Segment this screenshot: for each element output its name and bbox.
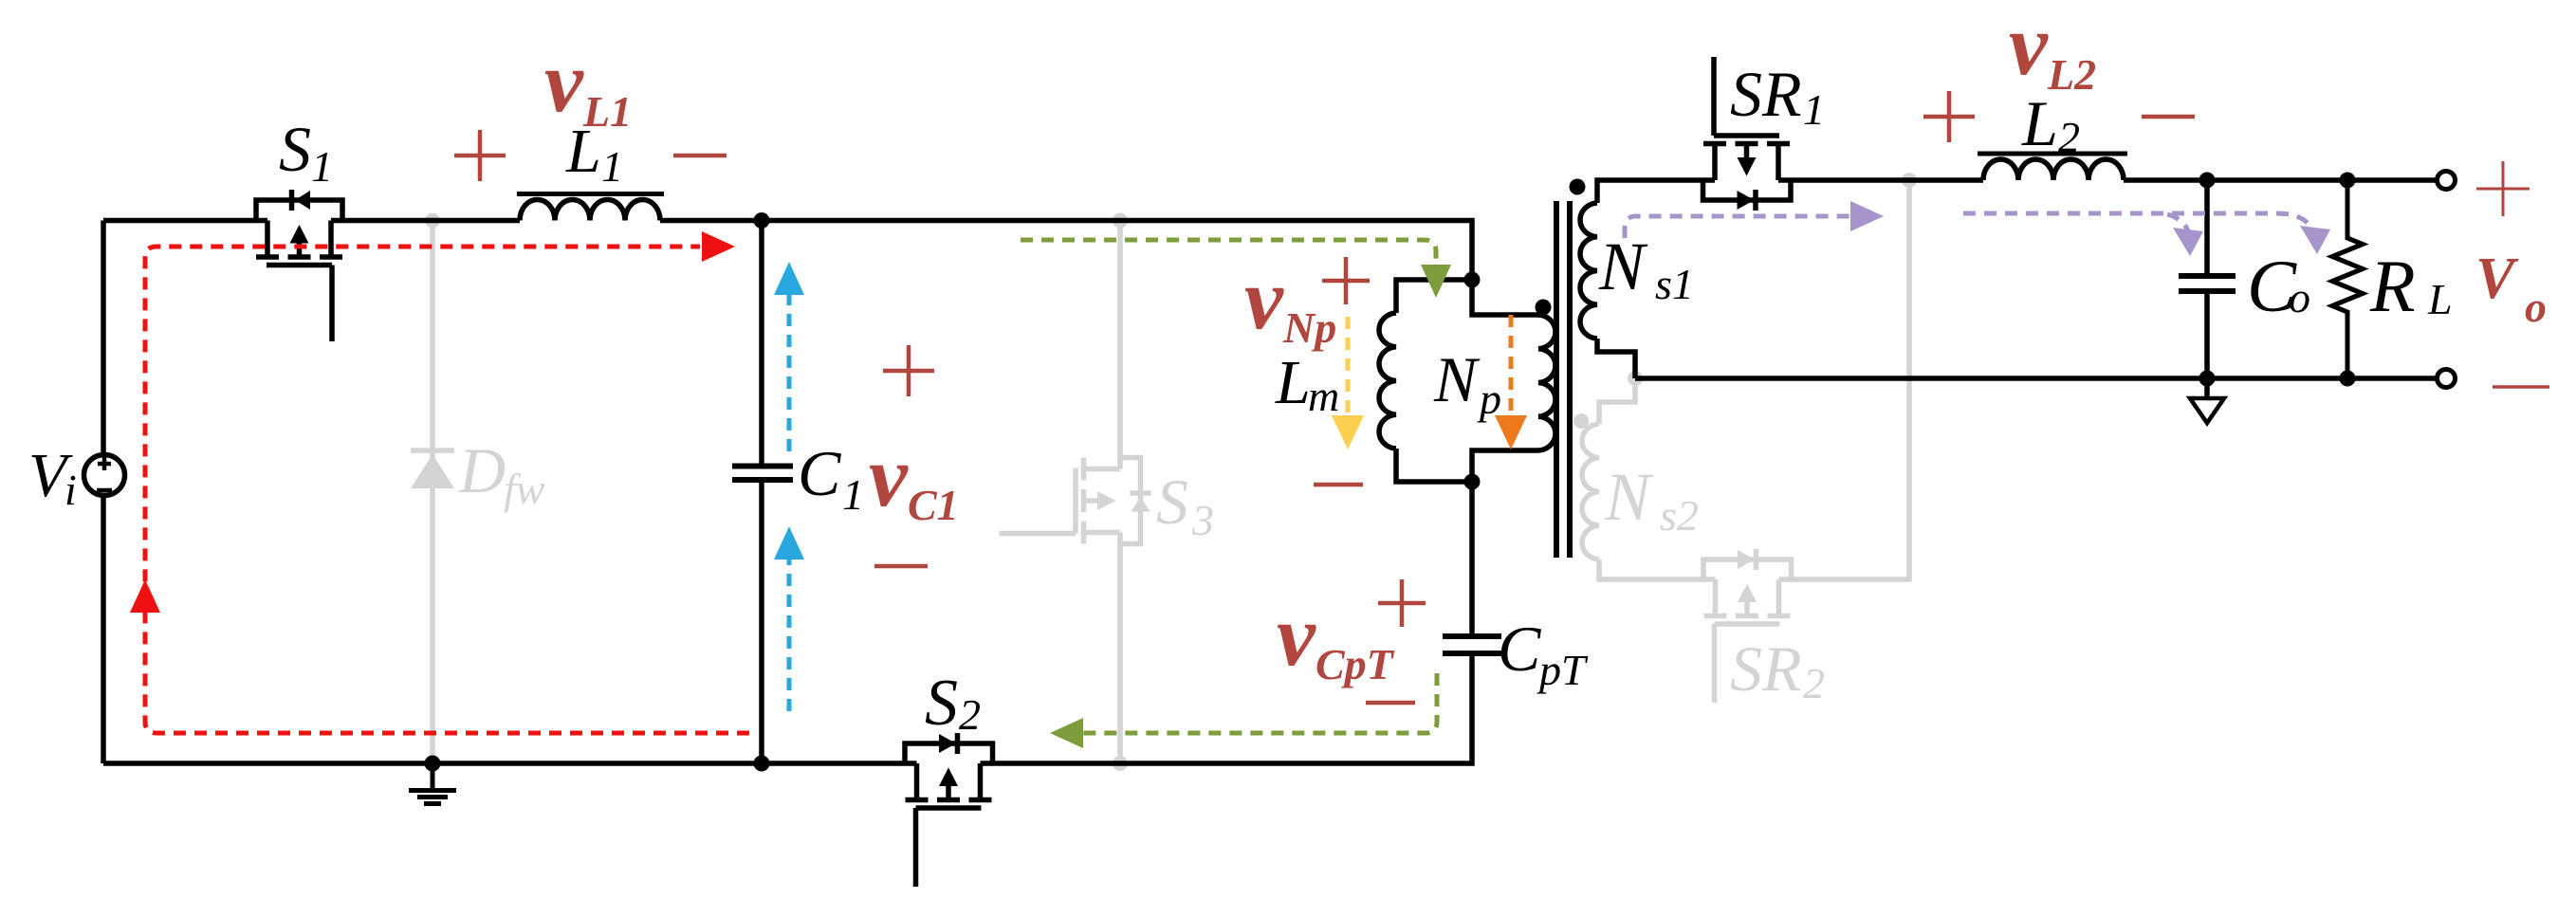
current loop red dashed — [130, 231, 749, 733]
capacitor CpT — [1443, 636, 1501, 653]
source Vi — [84, 455, 125, 496]
inductor L1 — [520, 200, 660, 221]
svg-text:m: m — [1308, 372, 1339, 420]
svg-text:L1: L1 — [582, 87, 632, 136]
svg-text:1: 1 — [842, 470, 864, 519]
svg-text:s1: s1 — [1655, 260, 1694, 308]
node Np bottom — [1464, 474, 1481, 490]
polarity dot Np — [1536, 300, 1552, 316]
svg-text:s2: s2 — [1660, 491, 1699, 540]
svg-text:v: v — [544, 33, 584, 130]
transistor SR2 — [1703, 549, 1792, 703]
svg-text:C: C — [1498, 613, 1541, 685]
wire bottom right of S2 — [981, 656, 1473, 763]
svg-text:C: C — [798, 437, 841, 509]
svg-text:R: R — [2369, 245, 2416, 327]
svg-text:o: o — [2525, 283, 2547, 331]
polarity plus vL1 — [454, 91, 2195, 703]
node ground — [425, 756, 441, 772]
wire L2 to output terminal — [2124, 177, 2436, 183]
svg-text:L2: L2 — [2047, 50, 2096, 99]
transformer core — [1556, 201, 1570, 558]
polarity dot Ns2 — [1573, 413, 1589, 429]
svg-text:v: v — [1244, 250, 1284, 347]
svg-text:2: 2 — [2058, 113, 2080, 161]
current path purple dashed secondary — [1625, 201, 2330, 256]
svg-text:CpT: CpT — [1316, 640, 1395, 688]
node C1 bottom — [754, 756, 770, 772]
node Co bottom — [2199, 371, 2216, 387]
svg-text:Np: Np — [1282, 303, 1336, 352]
polarity minus vCpT — [1366, 701, 1415, 706]
resistor RL — [2332, 180, 2363, 378]
polarity minus vC1 — [874, 564, 928, 569]
wire Lm bottom lead — [1396, 449, 1472, 482]
svg-text:N: N — [1598, 229, 1648, 304]
transistor S1 — [256, 190, 342, 341]
polarity plus vCpT — [1378, 579, 1426, 627]
wire Dfw branch — [430, 221, 435, 764]
wire Ns1 bottom lead — [1597, 339, 1635, 378]
svg-text:v: v — [869, 428, 909, 524]
winding Np — [1538, 315, 1555, 450]
winding Ns1 — [1580, 203, 1597, 339]
svg-text:C1: C1 — [908, 481, 959, 529]
svg-text:N: N — [1433, 343, 1481, 415]
capacitor C1 branch — [759, 221, 764, 764]
current arrows blue dashed C1 — [774, 262, 804, 711]
current loop green dashed — [1021, 240, 1451, 748]
svg-text:v: v — [1277, 587, 1316, 684]
svg-text:1: 1 — [311, 142, 333, 191]
wire Np bottom lead — [1472, 450, 1538, 482]
polarity dot Ns1 — [1570, 179, 1586, 195]
polarity minus vL1 — [673, 154, 727, 158]
winding Ns2 — [1582, 424, 1599, 559]
wire SR2 to top wire — [1779, 180, 1910, 579]
wire S3 branch — [1117, 221, 1123, 764]
polarity plus vL2 — [1923, 91, 1975, 142]
wire Lm branch — [1396, 280, 1472, 313]
transistor SR1 — [1703, 57, 1792, 211]
svg-text:V: V — [2475, 247, 2519, 311]
svg-text:S: S — [1156, 466, 1188, 538]
node RL bottom — [2340, 371, 2356, 387]
wire top left — [103, 218, 267, 224]
wire output bottom — [1635, 376, 2436, 381]
svg-text:L: L — [1275, 348, 1311, 417]
node gray SR2 branch on output top wire — [1902, 173, 1917, 188]
svg-text:S: S — [279, 113, 311, 185]
wire bottom left — [103, 761, 917, 766]
transistor S3 — [1000, 458, 1151, 544]
terminal output minus — [2438, 370, 2456, 388]
node C1 top — [754, 212, 770, 229]
node Co top — [2199, 173, 2216, 189]
diode Dfw — [411, 450, 454, 488]
svg-text:SR: SR — [1730, 58, 1802, 130]
wire Ns2 top lead — [1599, 378, 1635, 424]
terminal output plus — [2438, 172, 2456, 190]
ground main — [409, 763, 456, 804]
svg-text:D: D — [458, 434, 506, 506]
svg-text:1: 1 — [1803, 85, 1825, 134]
polarity plus Vo — [2476, 161, 2530, 216]
wire top from L1 to transformer — [660, 221, 1538, 316]
transistor S2 — [905, 733, 993, 887]
node gray top of Dfw branch — [425, 213, 440, 229]
polarity minus vL2 — [2142, 115, 2195, 119]
svg-text:o: o — [2289, 273, 2310, 321]
svg-text:p: p — [1477, 375, 1501, 423]
current arrow yellow dashed Lm — [1332, 317, 1364, 449]
node gray bottom of S3 branch — [1113, 756, 1128, 771]
node RL top — [2340, 173, 2356, 189]
svg-text:S: S — [925, 667, 958, 740]
svg-text:1: 1 — [601, 142, 623, 191]
svg-text:2: 2 — [1803, 659, 1825, 707]
svg-text:N: N — [1604, 459, 1654, 535]
capacitor Co branch — [2204, 180, 2210, 378]
wire left vertical — [101, 221, 106, 764]
svg-text:3: 3 — [1191, 496, 1214, 544]
node gray top of S3 branch — [1113, 213, 1128, 229]
svg-text:v: v — [2009, 0, 2049, 93]
polarity plus vNp — [1322, 257, 1370, 304]
node gray Ns2 tap — [1628, 371, 1643, 386]
wire Ns1 top lead — [1597, 180, 1715, 203]
svg-text:2: 2 — [959, 690, 981, 739]
wire SR1 to L2 — [1778, 177, 1983, 183]
node Np top — [1464, 272, 1481, 288]
wire top from S1 to L1 — [331, 218, 520, 224]
ground output — [2204, 378, 2210, 398]
current arrow orange dashed Np — [1495, 315, 1527, 449]
polarity minus vNp — [1314, 483, 1363, 487]
svg-text:fw: fw — [504, 465, 545, 513]
inductor L2 — [1983, 159, 2124, 180]
svg-text:L: L — [2427, 275, 2453, 323]
polarity plus vC1 — [883, 345, 934, 396]
svg-text:i: i — [64, 466, 77, 514]
inductor Lm — [1379, 313, 1396, 449]
wire Ns2 bottom lead — [1599, 559, 1716, 579]
wire CpT to Np bottom node — [1469, 482, 1475, 633]
svg-text:pT: pT — [1536, 646, 1589, 694]
polarity minus Vo — [2493, 385, 2549, 389]
svg-text:SR: SR — [1730, 633, 1802, 705]
